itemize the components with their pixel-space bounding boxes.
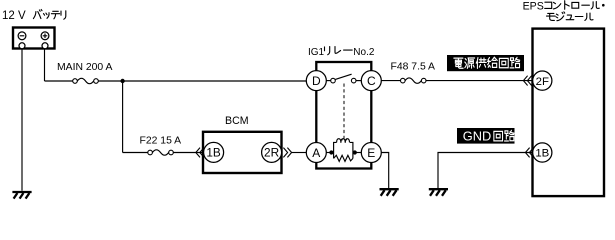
- katakana ri: [325, 47, 330, 55]
- katakana ru: [591, 2, 599, 9]
- relay contact C: [361, 71, 381, 91]
- wire battery minus to ground: [21, 49, 23, 191]
- kanji kai: [499, 58, 508, 67]
- kanji kai: [494, 131, 503, 141]
- katakana long-dash: [344, 49, 353, 51]
- svg-text:A: A: [312, 146, 320, 160]
- katakana long-dash: [575, 16, 583, 18]
- kanji kyou: [476, 58, 486, 69]
- node junction: [120, 79, 124, 83]
- wire MAIN fuse to relay D: [98, 80, 306, 82]
- svg-text:2F: 2F: [536, 76, 549, 88]
- katakana to: [565, 1, 570, 10]
- katakana re: [335, 47, 341, 54]
- wire battery plus down: [44, 49, 46, 81]
- svg-text:E: E: [367, 146, 375, 160]
- svg-text:2R: 2R: [264, 146, 279, 160]
- relay contact A: [306, 143, 326, 163]
- wire GND row: [438, 153, 533, 189]
- pin 2R (BCM): [262, 142, 282, 162]
- svg-text:IG1: IG1: [308, 47, 325, 58]
- pin 1B (EPS): [533, 143, 552, 162]
- katakana small-yu: [566, 15, 574, 20]
- battery B1: [13, 28, 55, 49]
- connector chevrons at EPS 1B: [525, 148, 533, 158]
- relay actuator dashed link: [343, 84, 345, 140]
- node coil left: [329, 150, 333, 154]
- katakana ru: [585, 13, 593, 20]
- connector chevrons at BCM 2R: [283, 148, 291, 158]
- relay contact E: [361, 143, 381, 163]
- pin 2F (EPS): [533, 71, 552, 90]
- BCM box: [203, 132, 282, 173]
- wire F22 to BCM 1B: [173, 152, 203, 154]
- svg-text:1B: 1B: [206, 146, 221, 160]
- label black GND circuit GND回路: [457, 128, 515, 144]
- wire 2R to relay A: [292, 152, 307, 154]
- wire coil to E: [353, 152, 361, 154]
- katakana ri: [61, 11, 66, 19]
- label EPS control module: [523, 1, 605, 21]
- fuse F22 15A: [148, 150, 174, 155]
- pin 1B (BCM): [204, 142, 224, 162]
- label black power-supply-circuit 電源供給回路: [447, 55, 524, 71]
- wire F48 to EPS 2F: [426, 80, 533, 82]
- EPS module box: [533, 29, 605, 197]
- ground battery: [12, 192, 31, 199]
- relay coil L1: [334, 139, 353, 159]
- svg-text:C: C: [367, 74, 376, 88]
- katakana long-dash: [582, 4, 590, 6]
- kanji ro: [510, 57, 520, 68]
- svg-text:1B: 1B: [535, 148, 549, 160]
- katakana ro: [572, 2, 579, 8]
- katakana mo: [547, 13, 556, 20]
- svg-text:F22 15 A: F22 15 A: [140, 136, 182, 147]
- ground GND circuit: [429, 189, 448, 196]
- wire to F22: [123, 152, 148, 154]
- relay switch: [326, 74, 361, 83]
- fuse MAIN 200A: [45, 78, 99, 83]
- katakana ko: [545, 2, 552, 8]
- wire C to F48: [381, 80, 400, 82]
- kanji gen: [465, 58, 475, 68]
- fuse F48 7.5A: [401, 78, 427, 83]
- katakana small-tsu: [44, 13, 50, 19]
- connector chevrons at EPS 2F: [523, 76, 531, 86]
- label IG1 relay No.2: [308, 47, 375, 59]
- katakana ba: [33, 10, 42, 19]
- kanji den: [454, 58, 463, 68]
- middle dot: [602, 4, 605, 7]
- katakana te: [51, 11, 59, 18]
- svg-text:12 V: 12 V: [2, 10, 26, 22]
- kanji ro: [505, 130, 515, 141]
- kanji kyuu: [488, 57, 498, 67]
- connector chevrons at BCM 1B: [196, 148, 204, 158]
- ground at relay E: [380, 189, 399, 196]
- relay resistor R1: [334, 155, 353, 161]
- relay contact D: [306, 71, 326, 91]
- svg-text:BCM: BCM: [225, 115, 249, 127]
- katakana ji: [556, 12, 565, 21]
- wire junction down: [122, 81, 124, 153]
- svg-text:D: D: [312, 74, 321, 88]
- node coil right: [353, 150, 357, 154]
- wire A to coil node: [326, 152, 333, 154]
- svg-text:F48 7.5 A: F48 7.5 A: [391, 62, 436, 73]
- label 12 V battery: [2, 10, 66, 23]
- katakana n: [553, 2, 560, 8]
- relay box IG1 No.2: [316, 62, 371, 169]
- svg-text:No.2: No.2: [353, 47, 375, 58]
- svg-text:EPS: EPS: [523, 1, 544, 13]
- svg-text:MAIN 200 A: MAIN 200 A: [57, 62, 113, 73]
- svg-text:GND: GND: [463, 129, 491, 144]
- wire E to ground: [381, 153, 388, 189]
